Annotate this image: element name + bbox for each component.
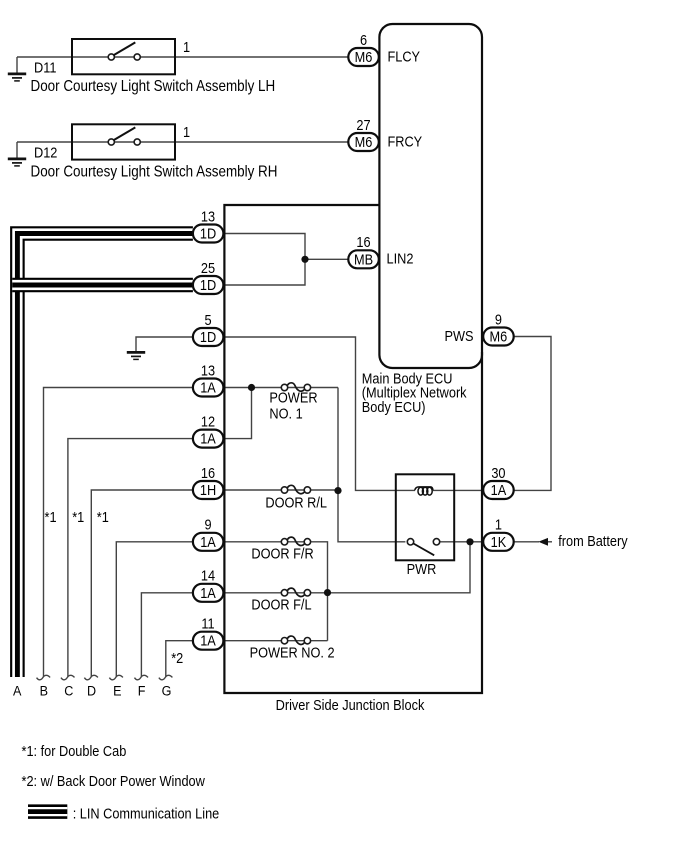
svg-text:NO. 1: NO. 1	[269, 404, 303, 421]
svg-text:1: 1	[183, 123, 190, 140]
svg-text:*2: *2	[171, 649, 183, 666]
svg-text:F: F	[138, 683, 146, 699]
svg-text:M6: M6	[355, 133, 373, 150]
svg-text:Driver Side Junction Block: Driver Side Junction Block	[276, 696, 425, 713]
svg-text:C: C	[64, 683, 73, 699]
svg-text:POWER: POWER	[269, 389, 317, 406]
svg-text:M6: M6	[355, 48, 373, 65]
svg-text:DOOR F/L: DOOR F/L	[251, 595, 311, 612]
svg-text:9: 9	[495, 310, 502, 327]
svg-text:30: 30	[491, 464, 505, 481]
svg-text:M6: M6	[490, 327, 508, 344]
svg-text:9: 9	[204, 516, 211, 533]
svg-text:1K: 1K	[491, 533, 507, 550]
svg-text:*1: *1	[72, 508, 84, 525]
svg-text:D: D	[87, 683, 96, 699]
svg-text:13: 13	[201, 361, 215, 378]
svg-text:1: 1	[495, 516, 502, 533]
svg-text:G: G	[162, 683, 172, 699]
svg-text:12: 12	[201, 412, 215, 429]
svg-text:1A: 1A	[200, 430, 216, 447]
svg-text:1H: 1H	[200, 481, 216, 498]
svg-text:1D: 1D	[200, 328, 216, 345]
svg-text:Door Courtesy Light Switch Ass: Door Courtesy Light Switch Assembly LH	[31, 78, 276, 95]
svg-text:B: B	[40, 683, 49, 699]
svg-text:from Battery: from Battery	[558, 532, 627, 549]
svg-text:: LIN Communication Line: : LIN Communication Line	[73, 804, 220, 821]
svg-text:PWS: PWS	[444, 327, 473, 344]
svg-text:5: 5	[204, 311, 211, 328]
svg-text:D12: D12	[34, 144, 58, 161]
svg-text:POWER NO. 2: POWER NO. 2	[250, 643, 335, 660]
svg-text:1A: 1A	[200, 632, 216, 649]
svg-text:1: 1	[183, 38, 190, 55]
svg-text:16: 16	[356, 233, 370, 250]
svg-text:D11: D11	[34, 58, 57, 75]
svg-text:1A: 1A	[200, 378, 216, 395]
svg-text:FLCY: FLCY	[388, 47, 421, 64]
svg-text:DOOR F/R: DOOR F/R	[251, 545, 313, 562]
svg-text:13: 13	[201, 207, 215, 224]
svg-text:A: A	[13, 683, 22, 699]
svg-text:1A: 1A	[200, 584, 216, 601]
svg-text:*2: w/ Back Door Power Window: *2: w/ Back Door Power Window	[22, 772, 206, 789]
svg-text:1D: 1D	[200, 276, 216, 293]
svg-text:Body ECU): Body ECU)	[362, 398, 426, 415]
svg-text:27: 27	[356, 116, 370, 133]
svg-text:*1: for Double Cab: *1: for Double Cab	[22, 742, 127, 759]
svg-text:DOOR R/L: DOOR R/L	[265, 494, 327, 511]
svg-text:LIN2: LIN2	[387, 249, 414, 266]
svg-text:11: 11	[201, 614, 214, 631]
svg-text:MB: MB	[354, 250, 373, 267]
svg-text:*1: *1	[97, 508, 109, 525]
svg-text:1A: 1A	[200, 533, 216, 550]
svg-text:PWR: PWR	[407, 560, 437, 577]
svg-text:FRCY: FRCY	[388, 132, 423, 149]
svg-text:16: 16	[201, 464, 215, 481]
svg-text:1D: 1D	[200, 224, 216, 241]
svg-text:*1: *1	[45, 508, 57, 525]
svg-text:1A: 1A	[491, 481, 507, 498]
svg-text:E: E	[113, 683, 122, 699]
svg-text:Door Courtesy Light Switch Ass: Door Courtesy Light Switch Assembly RH	[31, 163, 278, 180]
svg-text:25: 25	[201, 259, 215, 276]
svg-text:14: 14	[201, 567, 215, 584]
svg-text:6: 6	[360, 31, 367, 48]
